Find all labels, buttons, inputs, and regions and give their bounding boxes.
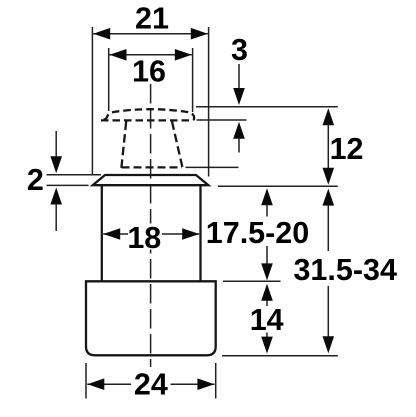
dim 31.5-34 arrow up <box>323 189 335 206</box>
neck junction extension <box>186 166 239 168</box>
dim 16 extension left <box>108 48 110 111</box>
dim 24 line right segment <box>171 383 215 385</box>
dim 16 extension right <box>192 48 194 112</box>
dim 31.5-34 lower stem <box>327 286 329 337</box>
cup top right extension <box>223 280 281 282</box>
dim 14 arrow down <box>261 337 273 354</box>
dim 3 lower arrow <box>233 122 245 139</box>
dim 3 lower stem <box>238 138 240 153</box>
neck junction hidden line <box>122 166 183 168</box>
svg-text:3: 3 <box>231 33 248 67</box>
svg-text:24: 24 <box>134 368 168 402</box>
flange <box>93 175 209 185</box>
svg-text:31.5-34: 31.5-34 <box>293 253 396 287</box>
cap bottom extension line <box>197 119 247 121</box>
cap top extension line <box>196 106 338 108</box>
body left side <box>101 186 103 281</box>
dim 12 arrow down <box>323 168 335 185</box>
label 18 <box>129 224 162 250</box>
cap (hidden dashed outline) <box>101 109 194 120</box>
dim 24 arrow left <box>87 378 104 390</box>
dim 14 lower stem <box>266 333 268 339</box>
dim 16 line <box>110 54 192 56</box>
dim 21 extension left <box>91 27 93 175</box>
cup outline <box>86 281 216 355</box>
dim 24 arrow right <box>197 378 214 390</box>
dim 16 arrow left <box>110 49 127 61</box>
dim 12 arrow up <box>323 108 335 125</box>
dim 31.5-34 arrow down <box>323 336 335 353</box>
dim 21 arrow right <box>191 28 208 40</box>
dim 14 arrow up <box>261 284 273 301</box>
dim 17.5-20 arrow down <box>261 263 273 280</box>
dim 2 upper stem <box>55 131 57 158</box>
dim 24 extension right <box>215 363 217 399</box>
cup bottom right extension <box>222 355 338 357</box>
dim 31.5-34 upper stem <box>327 205 329 252</box>
dim 16 arrow right <box>175 49 192 61</box>
dim 2 extension top <box>47 174 102 176</box>
neck left hidden line <box>121 122 126 169</box>
dim 17.5-20 upper stem <box>266 204 268 217</box>
svg-text:16: 16 <box>132 55 166 89</box>
dim 24 extension left <box>85 363 87 399</box>
dim 2 arrow down <box>50 156 62 173</box>
dim 24 line left segment <box>87 383 131 385</box>
svg-text:12: 12 <box>330 132 364 166</box>
dim 18 line right segment <box>162 233 199 235</box>
dim 3 upper arrow <box>233 88 245 105</box>
svg-text:21: 21 <box>135 2 169 36</box>
dim 2 extension bottom <box>47 184 89 186</box>
dim 2 lower stem <box>55 204 57 232</box>
dim 21 line <box>93 33 208 35</box>
dim 12 stem <box>327 124 329 168</box>
dim 2 arrow up <box>50 188 62 205</box>
dim 21 extension right <box>208 27 210 177</box>
neck right hidden line <box>172 122 183 169</box>
dim 18 line left segment <box>103 233 128 235</box>
dim 17.5-20 lower stem <box>266 246 268 265</box>
dim 17.5-20 arrow up <box>261 188 273 205</box>
dim 18 arrow left <box>103 228 120 240</box>
svg-text:2: 2 <box>27 163 44 197</box>
svg-text:18: 18 <box>127 221 161 255</box>
dim 3 upper stem <box>238 64 240 90</box>
svg-text:14: 14 <box>250 303 284 337</box>
dim 18 arrow right <box>182 228 199 240</box>
centerline <box>150 84 152 367</box>
svg-text:17.5-20: 17.5-20 <box>206 216 309 250</box>
body right side <box>199 186 201 281</box>
dim 14 upper stem <box>266 300 268 306</box>
dim 21 arrow left <box>93 28 110 40</box>
flange bottom right extension <box>218 185 338 187</box>
